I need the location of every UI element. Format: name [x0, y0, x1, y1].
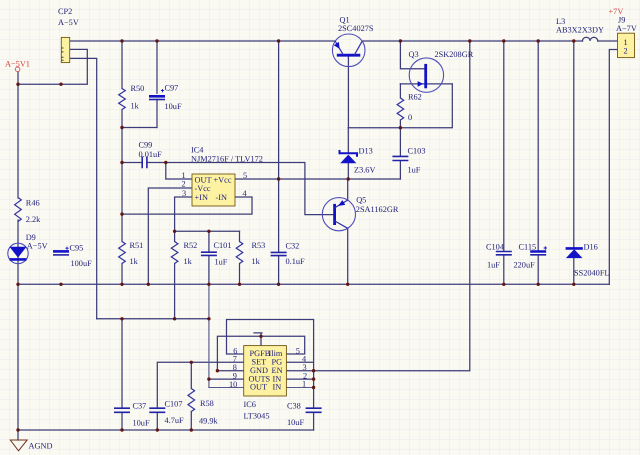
transistor Q3 2SK208GR JFET	[409, 58, 443, 92]
wire R50/C97 bottom link	[122, 127, 157, 129]
svg-text:0: 0	[408, 113, 412, 122]
wire C101 column	[208, 231, 210, 284]
svg-text:IN: IN	[273, 383, 282, 392]
wire R62 column	[399, 84, 401, 128]
junction node C37 bottom on ground bus	[120, 428, 123, 431]
svg-text:2: 2	[182, 180, 186, 189]
svg-text:1uF: 1uF	[215, 258, 228, 267]
svg-text:C32: C32	[286, 242, 300, 251]
svg-text:2SA1162GR: 2SA1162GR	[356, 205, 399, 214]
capacitor C38	[306, 408, 322, 412]
junction node IC6 pin2 IN junction	[312, 377, 315, 380]
wire IC4 pin3 (+IN) down through R52 to sense line	[175, 197, 192, 319]
svg-text:A−5V: A−5V	[58, 18, 79, 27]
svg-text:D13: D13	[359, 146, 373, 155]
wire C99 line from R50 column to Q5 base	[122, 163, 334, 215]
junction node R58 bottom on ground bus	[190, 428, 193, 431]
svg-text:C99: C99	[139, 141, 153, 150]
wire R58 column	[190, 362, 192, 430]
junction node bus at A-5V1 column	[16, 283, 19, 286]
svg-text:R53: R53	[252, 241, 266, 250]
junction node R53 bottom on bus	[238, 283, 241, 286]
wire C103 column	[399, 128, 401, 179]
junction node IC6 pin8 GND junction	[216, 369, 219, 372]
svg-text:A−5V: A−5V	[27, 242, 48, 251]
junction node R51 bottom on bus	[120, 283, 123, 286]
junction node R50/C97 bottom	[120, 126, 123, 129]
junction node D16 bottom on bus	[572, 283, 575, 286]
capacitor C97 polarized	[149, 95, 165, 98]
junction node R58 top on SET line	[190, 361, 193, 364]
svg-text:NJM2716F / TLV172: NJM2716F / TLV172	[191, 155, 263, 164]
wire C97 column	[156, 41, 158, 128]
wire C115 column	[537, 41, 539, 284]
junction node C95 top junction	[59, 83, 62, 86]
wire IC6 pin1 IN stub	[286, 387, 313, 389]
svg-text:2.2k: 2.2k	[26, 215, 41, 224]
wire Q3 gate from rail	[400, 41, 425, 69]
svg-text:220uF: 220uF	[514, 261, 536, 270]
junction node AGND stem	[16, 428, 19, 431]
svg-text:C115: C115	[519, 243, 537, 252]
wire Q3 source line with R62 top	[400, 83, 452, 85]
capacitor C101	[201, 252, 217, 255]
capacitor C37	[114, 408, 130, 412]
capacitor C107	[149, 408, 165, 412]
wire IC4 pin1 from C99 line	[166, 163, 192, 180]
svg-text:+IN: +IN	[195, 193, 208, 202]
junction node Q3 gate on rail	[399, 39, 402, 42]
port A-5V1 circle	[15, 67, 20, 72]
svg-text:2SK208GR: 2SK208GR	[435, 50, 474, 59]
capacitor C104	[496, 252, 512, 255]
svg-text:-IN: -IN	[216, 193, 228, 202]
svg-text:R62: R62	[408, 93, 422, 102]
schottky diode D16	[566, 247, 583, 250]
svg-text:R58: R58	[200, 399, 214, 408]
svg-text:1uF: 1uF	[408, 165, 421, 174]
wire L3 to J9 pin1	[598, 40, 618, 42]
wire C104 column	[503, 41, 505, 284]
svg-text:R46: R46	[26, 199, 40, 208]
junction node C95 bottom on bus	[59, 283, 62, 286]
capacitor C32	[271, 252, 287, 255]
wire IC4 pin2 (-Vcc) to bus	[148, 188, 192, 284]
svg-text:OUT: OUT	[250, 383, 267, 392]
wire IC6 pin3 EN stub	[286, 370, 313, 372]
svg-text:0.01uF: 0.01uF	[139, 150, 163, 159]
wire CP2 pin3 long vertical to output sense line	[70, 58, 97, 318]
wire IC6 pin4 PG stub	[286, 361, 312, 363]
junction node C115 bottom on bus	[537, 283, 540, 286]
wire D16 column	[573, 41, 575, 284]
junction node D13/Q5 emitter	[347, 177, 350, 180]
junction node output column on sense line	[207, 317, 210, 320]
svg-text:-Vcc: -Vcc	[195, 184, 211, 193]
wire C32 column	[278, 41, 280, 284]
wire output column from bus to IC6 pin10	[208, 284, 210, 387]
wire C38 column	[313, 371, 315, 430]
svg-text:1k: 1k	[184, 257, 193, 266]
junction node IC6 pin3 EN junction	[312, 369, 315, 372]
junction node C104 bottom on bus	[502, 283, 505, 286]
junction node IC6 pin9 OUTS junction	[207, 377, 210, 380]
wire IC4 pin5 (+Vcc) line to C103	[235, 178, 400, 180]
connector J9	[618, 33, 635, 57]
svg-text:1k: 1k	[252, 257, 261, 266]
svg-text:C97: C97	[165, 84, 179, 93]
svg-text:SS2040FL: SS2040FL	[574, 268, 610, 277]
junction node feedback to R50 column	[120, 212, 123, 215]
wire C37 column	[121, 319, 123, 430]
wire CP2 pin2 to lower-left node	[18, 49, 87, 84]
wire top rail right segment (Q1 collector to L3)	[362, 40, 582, 42]
transistor Q5 2SA1162GR	[322, 198, 355, 231]
wire AGND bus y=430	[18, 429, 314, 431]
capacitor C103	[392, 156, 408, 160]
diode D9 LED A-5V	[8, 243, 28, 263]
svg-text:+7V: +7V	[609, 7, 624, 16]
svg-text:CP2: CP2	[58, 7, 72, 16]
resistor R51	[119, 242, 126, 264]
junction node C115 top on rail	[537, 39, 540, 42]
regulator IC6 body	[244, 346, 287, 396]
wire line y=127.7 Q1/D13/R62/Q3 drain	[348, 84, 452, 128]
svg-text:2: 2	[624, 47, 628, 56]
svg-text:49.9k: 49.9k	[199, 416, 219, 425]
svg-text:Q5: Q5	[356, 196, 366, 205]
junction node EN column on rail	[468, 39, 471, 42]
junction node IC6 pad on inner loop	[259, 335, 262, 338]
junction node C99 to IC4 pin1	[164, 161, 167, 164]
junction node C37 top on sense line	[120, 317, 123, 320]
svg-text:10uF: 10uF	[133, 419, 150, 428]
junction node Q5 collector on bus	[346, 283, 349, 286]
svg-text:1: 1	[302, 380, 306, 389]
resistor R62	[397, 98, 404, 120]
wire EN column from rail down and EN line to IC6 pin3	[314, 41, 470, 371]
wire IC6 inner loop pin8 to pin5	[217, 336, 304, 370]
resistor R52	[171, 242, 178, 264]
svg-text:R51: R51	[130, 241, 144, 250]
svg-text:C103: C103	[408, 147, 426, 156]
junction node C101 top	[207, 230, 210, 233]
junction node C104 top on rail	[502, 39, 505, 42]
svg-text:AB3X2X3DY: AB3X2X3DY	[556, 25, 604, 34]
junction node R50 top on rail	[120, 39, 123, 42]
junction node C32 bottom on bus	[277, 283, 280, 286]
inductor L3	[583, 37, 598, 41]
svg-text:5: 5	[296, 346, 300, 355]
svg-text:100uF: 100uF	[71, 259, 93, 268]
svg-text:1: 1	[624, 38, 628, 47]
svg-text:LT3045: LT3045	[244, 412, 270, 421]
svg-text:C104: C104	[486, 243, 505, 252]
capacitor C95 polarized	[53, 250, 69, 253]
svg-text:0.1uF: 0.1uF	[286, 257, 306, 266]
junction node -Vcc column on bus	[147, 283, 150, 286]
junction node IC6 pin1 IN junction	[312, 386, 315, 389]
resistor R50	[119, 89, 126, 110]
ground AGND symbol	[10, 440, 27, 451]
svg-text:IC6: IC6	[244, 400, 256, 409]
svg-text:C37: C37	[133, 401, 147, 410]
wire divider line y=231.3 R52/C101/R53	[175, 230, 240, 232]
svg-text:D16: D16	[584, 242, 598, 251]
svg-text:5: 5	[243, 171, 247, 180]
wire output sense line y=318.8	[97, 318, 209, 320]
svg-text:C101: C101	[214, 241, 232, 250]
svg-text:3: 3	[182, 189, 186, 198]
wire R53 column	[239, 231, 241, 284]
svg-text:Q3: Q3	[409, 50, 419, 59]
wire Q5 emitter up to D13 node	[347, 179, 349, 200]
svg-text:2SC4027S: 2SC4027S	[338, 24, 374, 33]
junction node A-5V1 junction	[16, 83, 19, 86]
wire IC4 pin4 (-IN) feedback loop	[122, 197, 252, 214]
zener diode D13	[340, 150, 358, 157]
svg-text:R50: R50	[131, 84, 145, 93]
junction node C99 left junction	[120, 161, 123, 164]
wire J9 pin2 down to bus	[609, 50, 617, 285]
wire IC6 ground pad stub	[254, 333, 262, 346]
svg-text:AGND: AGND	[29, 442, 53, 451]
wire R50 column from rail to R51 to bus	[121, 41, 123, 284]
svg-text:A−5V1: A−5V1	[5, 60, 30, 69]
svg-text:C107: C107	[165, 399, 183, 408]
svg-text:C38: C38	[287, 401, 301, 410]
svg-text:4.7uF: 4.7uF	[165, 416, 185, 425]
op-amp IC4 body	[192, 174, 235, 206]
svg-text:10uF: 10uF	[287, 418, 304, 427]
connector CP2	[61, 37, 69, 62]
wire top rail left segment (A-5V rail from CP2 to Q1 emitter)	[70, 40, 336, 42]
junction node C107 bottom on ground bus	[156, 428, 159, 431]
junction node D16 top on rail	[572, 39, 575, 42]
svg-text:10uF: 10uF	[165, 102, 182, 111]
svg-text:Q1: Q1	[340, 15, 350, 24]
junction node C97 top on rail	[155, 39, 158, 42]
wire IC6 pin9 OUTS stub	[209, 378, 244, 380]
svg-text:IC4: IC4	[191, 146, 204, 155]
capacitor C99	[142, 157, 147, 169]
capacitor C115 polarized	[530, 250, 546, 253]
wire Q5 collector to bus	[347, 228, 349, 284]
svg-text:Z3.6V: Z3.6V	[354, 166, 375, 175]
junction node C32 top on +Vcc line	[277, 177, 280, 180]
svg-text:A−7V: A−7V	[616, 24, 637, 33]
svg-text:R52: R52	[184, 241, 198, 250]
wire Q1 base vertical	[347, 55, 349, 128]
svg-text:10: 10	[229, 380, 237, 389]
transistor Q1 2SC4027S	[332, 34, 365, 67]
svg-text:1uF: 1uF	[487, 261, 500, 270]
svg-text:1k: 1k	[131, 102, 140, 111]
wire IC6 pin6 PGFB outer loop	[227, 320, 314, 371]
wire IC6 pin10 OUT stub	[209, 387, 244, 389]
wire IC6 pin2 IN stub	[286, 378, 313, 380]
resistor R58	[188, 389, 195, 412]
junction node R62 bottom / C103 top	[399, 126, 402, 129]
junction node C101 bottom on bus	[207, 283, 210, 286]
wire output bus y=284.3	[18, 283, 609, 285]
junction node R52 bottom on sense line	[173, 317, 176, 320]
wire D13 column	[347, 128, 349, 179]
wire IC6 pin7 SET line to C107	[157, 362, 243, 430]
svg-text:C95: C95	[70, 244, 84, 253]
resistor R53	[236, 242, 243, 264]
resistor R46	[15, 198, 22, 222]
svg-text:+Vcc: +Vcc	[214, 176, 232, 185]
junction node R52 top	[173, 230, 176, 233]
wire A-5V1 port vertical through R46 and D9	[17, 72, 19, 440]
svg-text:1k: 1k	[130, 257, 139, 266]
junction node C32 column on rail	[277, 39, 280, 42]
wire IC6 pin8 GND stub	[217, 370, 243, 372]
